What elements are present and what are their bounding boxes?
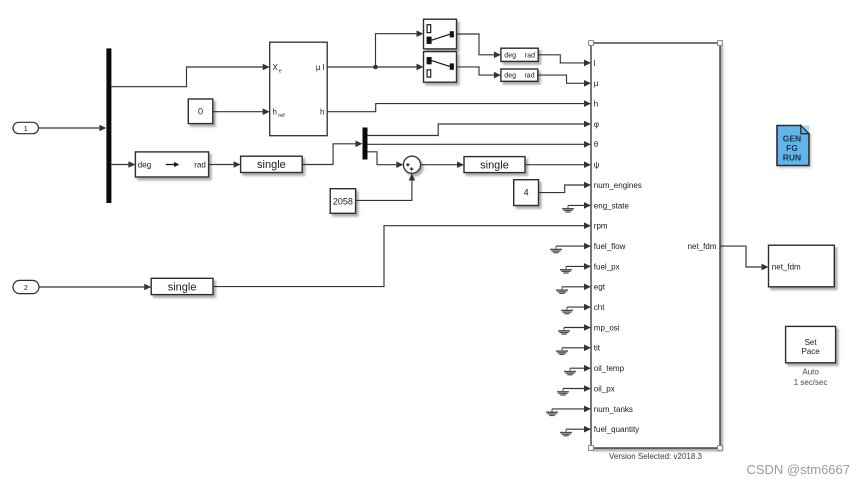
outport net_fdm — [769, 245, 835, 287]
GEN FG RUN script block — [777, 126, 809, 166]
svg-text:mp_osi: mp_osi — [594, 323, 620, 332]
svg-text:tit: tit — [594, 344, 601, 353]
wire 2058 to sum — [356, 174, 416, 201]
svg-text:ψ: ψ — [594, 161, 600, 170]
wire deg2rad to single S1 — [209, 161, 241, 168]
wire SW1 to deg-rad DR1 — [457, 34, 501, 58]
svg-text:cht: cht — [594, 303, 605, 312]
ground for oil_temp — [564, 365, 591, 375]
svg-text:FG: FG — [786, 143, 798, 153]
svg-text:GEN: GEN — [783, 134, 801, 144]
wire 0 to h_ref — [213, 108, 270, 115]
svg-text:Auto: Auto — [802, 367, 819, 376]
wire sum to single S2 — [421, 161, 464, 168]
svg-text:deg: deg — [138, 161, 151, 170]
svg-text:X: X — [273, 63, 279, 72]
wire 4 to num_engines — [539, 182, 592, 193]
ground for fuel_quantity — [560, 426, 591, 436]
svg-text:h: h — [273, 108, 277, 117]
wire junction to manual switch SW1 — [376, 30, 424, 67]
watermark CSDN — [746, 462, 850, 477]
svg-text:single: single — [168, 281, 197, 293]
subsystem U1 (Xe / h_ref) — [270, 42, 328, 136]
svg-text:egt: egt — [594, 283, 606, 292]
svg-text:deg: deg — [504, 52, 516, 59]
svg-text:h: h — [320, 108, 324, 117]
wire D2 out3 to sum — [368, 152, 404, 168]
ground for cht — [561, 304, 591, 314]
svg-text:2: 2 — [24, 285, 28, 292]
constant block 4 — [514, 180, 539, 206]
ground for num_tanks — [546, 406, 591, 416]
svg-text:1 sec/sec: 1 sec/sec — [794, 378, 828, 387]
angle conversion deg to rad — [135, 152, 208, 177]
ground for eng_state — [562, 202, 591, 212]
wire junction to manual switch SW2 — [376, 64, 424, 71]
svg-text:Pace: Pace — [801, 347, 820, 356]
wire Xe h output to h — [327, 100, 591, 111]
constant block 2058 — [330, 189, 355, 214]
unit conversion DR1 (deg rad) — [501, 48, 538, 61]
data type conversion S2 (single) — [464, 157, 525, 173]
wire SW2 to deg-rad DR2 — [457, 67, 501, 79]
data type conversion S1 (single) — [241, 156, 303, 172]
wire D1 out1 to Xe input — [111, 64, 269, 87]
ground for fuel_flow — [550, 243, 591, 253]
demux D1 bar — [106, 48, 111, 203]
input port 2 — [13, 280, 39, 293]
constant block 0 — [188, 99, 213, 124]
svg-text:Version Selected: v2018.3: Version Selected: v2018.3 — [609, 452, 703, 461]
label Version Selected — [609, 452, 703, 461]
svg-text:θ: θ — [594, 140, 599, 149]
ground for egt — [556, 284, 591, 294]
svg-text:CSDN @stm6667: CSDN @stm6667 — [746, 462, 850, 477]
svg-text:fuel_flow: fuel_flow — [594, 242, 626, 251]
wire DR2 to mu — [538, 75, 591, 87]
svg-text:2058: 2058 — [333, 197, 353, 207]
label Auto 1 sec/sec — [794, 367, 828, 387]
svg-text:fuel_quantity: fuel_quantity — [594, 425, 639, 434]
svg-text:rad: rad — [524, 73, 534, 80]
svg-text:fuel_px: fuel_px — [594, 262, 620, 271]
wire D1 out2 to deg2rad — [111, 161, 135, 168]
node mu-l junction — [373, 65, 378, 70]
data type conversion S3 (single) — [151, 278, 213, 294]
wire port1 to demux D1 — [39, 125, 107, 132]
svg-text:1: 1 — [24, 126, 28, 133]
wire D2 out1 to phi — [368, 121, 592, 136]
svg-text:0: 0 — [198, 106, 203, 116]
ground for fuel_px — [560, 263, 591, 273]
svg-text:num_engines: num_engines — [594, 181, 642, 190]
wire D2 out2 to theta — [368, 141, 592, 148]
svg-text:eng_state: eng_state — [594, 201, 630, 210]
ground for oil_px — [557, 385, 591, 395]
input port 1 — [13, 122, 39, 133]
ground for mp_osi — [558, 324, 591, 334]
svg-text:µ: µ — [594, 79, 599, 88]
svg-text:φ: φ — [594, 120, 599, 129]
svg-text:num_tanks: num_tanks — [594, 405, 633, 414]
Set Pace block — [786, 326, 836, 362]
selection handles U2 — [589, 41, 723, 451]
ground for tit — [556, 345, 591, 355]
svg-text:single: single — [257, 159, 286, 171]
FlightGear subsystem U2 — [591, 43, 720, 448]
svg-text:single: single — [480, 159, 509, 171]
svg-text:net_fdm: net_fdm — [772, 263, 801, 272]
svg-text:net_fdm: net_fdm — [688, 242, 717, 251]
manual switch SW1 — [424, 19, 457, 49]
svg-text:rad: rad — [525, 52, 535, 59]
svg-text:rpm: rpm — [594, 222, 608, 231]
wire S1 to demux D2 — [302, 141, 362, 165]
svg-text:e: e — [279, 68, 282, 74]
wire port2 to single S3 — [39, 284, 151, 291]
svg-text:l: l — [594, 59, 596, 68]
svg-text:ref: ref — [278, 113, 285, 119]
svg-text:Set: Set — [805, 338, 818, 347]
sum block — [403, 156, 420, 173]
wire Xe mu-l output to junction — [327, 66, 375, 68]
svg-text:h: h — [594, 100, 598, 109]
svg-text:4: 4 — [524, 188, 529, 198]
svg-text:oil_px: oil_px — [594, 384, 615, 393]
svg-text:deg: deg — [504, 73, 516, 80]
manual switch SW2 — [424, 52, 457, 83]
svg-text:rad: rad — [194, 161, 206, 170]
svg-text:oil_temp: oil_temp — [594, 364, 625, 373]
wire S3 to rpm — [213, 222, 591, 286]
wire S2 to psi — [525, 161, 591, 168]
wire net_fdm out — [720, 246, 769, 270]
demux D2 bar — [363, 128, 368, 160]
wire DR1 to l — [538, 55, 591, 66]
svg-text:µ l: µ l — [316, 63, 325, 72]
svg-text:RUN: RUN — [783, 153, 801, 163]
unit conversion DR2 (deg rad) — [501, 69, 538, 81]
